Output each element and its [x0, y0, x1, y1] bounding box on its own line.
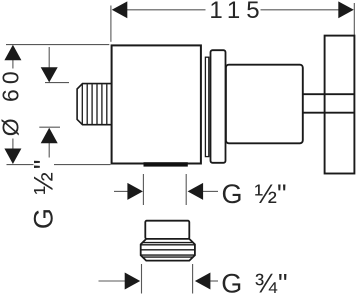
svg-text:Ø 60: Ø 60: [0, 66, 24, 136]
svg-text:G: G: [221, 268, 242, 295]
svg-text:¾: ¾: [255, 268, 278, 295]
svg-text:115: 115: [209, 0, 265, 24]
svg-text:½: ½: [255, 179, 278, 209]
svg-text:": ": [278, 268, 288, 295]
svg-text:G ½": G ½": [29, 156, 59, 229]
svg-text:": ": [277, 179, 287, 209]
svg-text:G: G: [222, 179, 243, 209]
